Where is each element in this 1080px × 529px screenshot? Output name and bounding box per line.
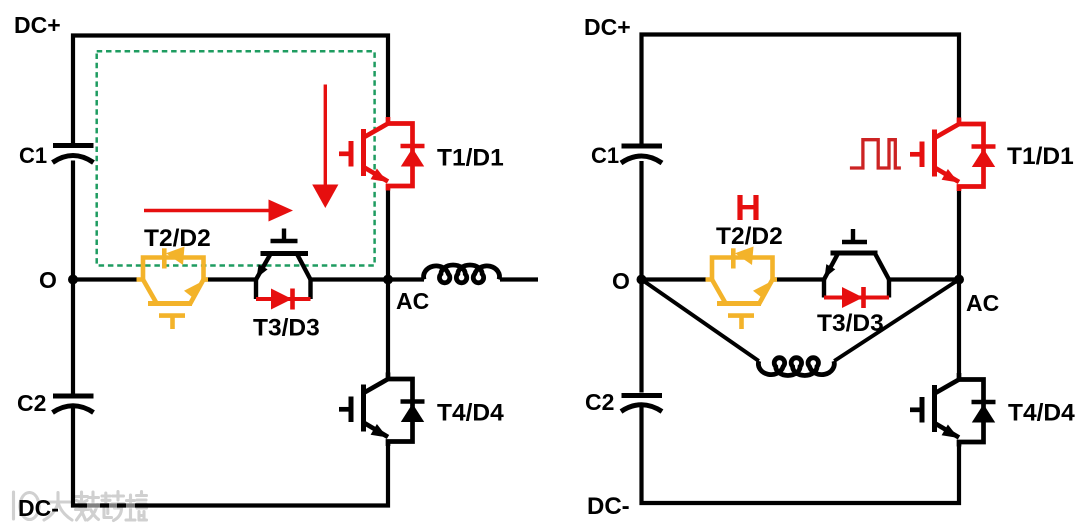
IGBT T4 with diode D4 (black, right) <box>910 373 996 447</box>
svg-text:T3/D3: T3/D3 <box>253 315 320 342</box>
wire: T3 to AC <box>311 277 389 281</box>
svg-text:AC: AC <box>966 290 999 316</box>
svg-text:C2: C2 <box>17 390 46 416</box>
svg-text:T4/D4: T4/D4 <box>437 400 504 427</box>
wire: right bottom bus <box>642 403 960 504</box>
IGBT T3 with diode D3 (black + red diode, right) <box>824 229 889 308</box>
svg-text:DC-: DC- <box>18 495 59 521</box>
IGBT T4 with diode D4 (black) <box>339 373 425 447</box>
svg-text:DC+: DC+ <box>584 14 631 40</box>
watermark glow over bottom wire <box>87 503 135 509</box>
svg-text:O: O <box>39 267 57 293</box>
svg-text:T2/D2: T2/D2 <box>716 223 783 250</box>
wire: T2 to T3 <box>204 277 257 281</box>
IGBT T1 with diode D1 (red) <box>339 117 425 191</box>
svg-text:T1/D1: T1/D1 <box>1007 143 1074 170</box>
inductor L (left output filter) <box>424 265 500 283</box>
wire: O to T2 <box>73 277 137 281</box>
wire: diagonal O to inductor <box>642 280 759 362</box>
red current arrow (horizontal) <box>144 200 293 222</box>
wire: O to T2 (right) <box>642 277 707 281</box>
green dashed commutation loop box <box>97 51 375 265</box>
wire: T3 to AC (right) <box>889 277 959 281</box>
IGBT T1 with diode D1 (red, right) <box>910 118 996 192</box>
node O (right) <box>637 275 647 285</box>
capacitor C2 <box>53 396 94 413</box>
svg-text:C2: C2 <box>585 389 614 415</box>
wire: AC to inductor <box>388 277 424 281</box>
svg-text:T3/D3: T3/D3 <box>817 310 884 337</box>
node AC (right) <box>954 275 964 285</box>
svg-text:AC: AC <box>396 288 429 314</box>
capacitor C1 <box>53 146 94 163</box>
IGBT T2 with diode D2 (orange, right) <box>706 247 778 330</box>
svg-text:DC+: DC+ <box>14 12 61 38</box>
wire: left top bus + rails <box>73 36 388 144</box>
svg-text:T2/D2: T2/D2 <box>144 225 211 252</box>
wire: right top bus + rails <box>642 35 960 144</box>
red current arrow (vertical) <box>312 85 338 209</box>
inductor L (right, inverted) <box>758 358 834 376</box>
IGBT T3 with diode D3 (black + red diode) <box>256 229 311 310</box>
wire: right rail between T1 and T4 (through AC node) <box>957 191 961 373</box>
wire: left bottom bus <box>73 404 388 506</box>
IGBT T2 with diode D2 (orange, pointing down) <box>137 247 209 330</box>
gate PWM square wave (red) <box>850 140 901 168</box>
node O <box>68 275 78 285</box>
svg-text:O: O <box>612 268 630 294</box>
wire: right rail between T1 and T4 (through AC node) <box>386 191 390 374</box>
svg-text:T1/D1: T1/D1 <box>437 145 504 172</box>
svg-text:H: H <box>735 187 761 228</box>
node AC <box>383 275 393 285</box>
wire: right rail C1 to C2 through node O <box>639 161 643 393</box>
svg-text:C1: C1 <box>19 143 47 168</box>
capacitor C2 (right) <box>621 396 662 412</box>
wire: inductor to output <box>500 277 538 281</box>
watermark logo + text (bottom left) <box>14 492 147 521</box>
wire: T2 to T3 (right) <box>773 277 825 281</box>
svg-text:DC-: DC- <box>587 493 630 520</box>
wire: diagonal inductor to AC <box>834 280 959 362</box>
capacitor C1 (right) <box>621 146 662 163</box>
svg-text:C1: C1 <box>591 143 619 168</box>
wire: left rail C1 to C2 through node O <box>71 161 75 394</box>
svg-text:T4/D4: T4/D4 <box>1008 400 1075 427</box>
